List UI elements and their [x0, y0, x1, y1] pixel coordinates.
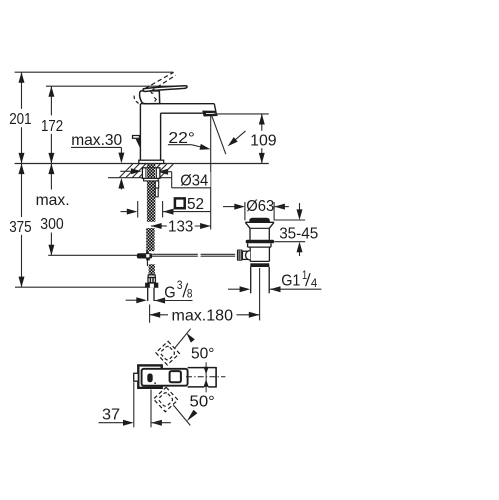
svg-text:52: 52: [187, 196, 204, 213]
svg-text:max.30: max.30: [71, 132, 122, 149]
svg-text:172: 172: [41, 118, 63, 135]
svg-text:G1: G1: [281, 273, 300, 290]
svg-text:Ø34: Ø34: [180, 172, 208, 189]
svg-text:G: G: [164, 285, 175, 302]
svg-text:50°: 50°: [190, 394, 215, 411]
svg-text:4: 4: [311, 278, 318, 290]
svg-text:201: 201: [9, 111, 32, 128]
svg-text:3: 3: [177, 280, 183, 292]
svg-text:37: 37: [102, 406, 120, 423]
svg-text:375: 375: [9, 219, 32, 236]
svg-text:35-45: 35-45: [279, 226, 318, 243]
svg-text:max.180: max.180: [172, 307, 234, 324]
svg-text:Ø63: Ø63: [246, 198, 274, 215]
svg-text:109: 109: [250, 132, 277, 149]
svg-text:max.: max.: [36, 192, 70, 209]
svg-text:1: 1: [302, 270, 307, 282]
svg-text:50°: 50°: [191, 345, 215, 362]
svg-text:133: 133: [168, 218, 194, 235]
svg-text:300: 300: [40, 216, 64, 233]
svg-text:8: 8: [187, 289, 193, 301]
